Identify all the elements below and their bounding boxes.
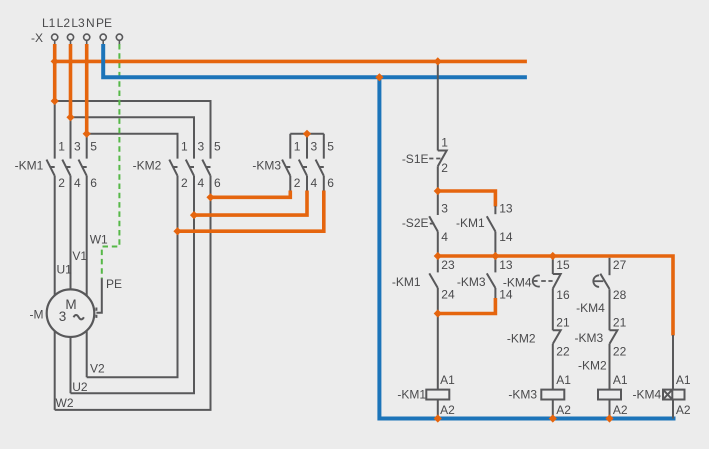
wire star link KM3:2 to W2 line (orange) bbox=[211, 191, 291, 198]
junction node C bbox=[434, 309, 442, 317]
timed contact KM4 27-28 NO delayed bbox=[593, 274, 609, 289]
svg-text:1: 1 bbox=[58, 139, 65, 153]
wire node B to KM3:13 bbox=[494, 257, 496, 272]
wire motor V2 to KM2:2 bbox=[87, 176, 178, 377]
svg-text:22: 22 bbox=[556, 345, 570, 359]
aux contact KM2 21-22 NC interlock bbox=[553, 330, 561, 344]
junction node B at KM4:15 bbox=[549, 252, 557, 260]
svg-text:4: 4 bbox=[198, 176, 205, 190]
wire PE green dashed run bbox=[102, 44, 120, 279]
aux contact KM3 21-22 NC interlock bbox=[610, 330, 618, 344]
junction V2 x star link bbox=[173, 227, 181, 235]
svg-text:14: 14 bbox=[499, 230, 513, 244]
wire KM4:16 to KM2:21 bbox=[552, 289, 554, 331]
svg-text:M: M bbox=[65, 297, 76, 312]
wire L2 feed to KM2:3 bbox=[71, 117, 195, 158]
pin labels S2 3 4 bbox=[441, 202, 448, 244]
terminal -X:PE bbox=[116, 34, 122, 45]
pin labels KM1 A1 A2 bbox=[440, 373, 455, 417]
coil KM4 timer with crossed cell bbox=[663, 390, 685, 400]
pin labels 23 24 bbox=[441, 258, 455, 302]
wire KM4:28 to KM3:21 bbox=[609, 289, 611, 330]
pin labels KM3 A1 A2 bbox=[556, 373, 571, 417]
junction blue bus x coil KM1 bbox=[434, 414, 442, 422]
junction node B at KM1:14 bbox=[491, 252, 499, 260]
pushbutton S1 NC stop contact bbox=[429, 151, 447, 167]
wire L3 feed to KM2:1 bbox=[87, 134, 178, 159]
pin labels 13 14 bbox=[499, 258, 513, 302]
wire KM3:2 lead bbox=[289, 176, 291, 191]
svg-text:2: 2 bbox=[441, 161, 448, 175]
wire S2 to node B bbox=[437, 232, 439, 258]
wire node B to KM4:27 bbox=[609, 258, 611, 275]
contactor KM1 main contacts poles 1-2 3-4 5-6 bbox=[47, 160, 87, 176]
svg-text:16: 16 bbox=[556, 288, 570, 302]
terminal -X:L3 bbox=[84, 34, 90, 45]
junction U2 x star link bbox=[190, 211, 198, 219]
terminal -X:L2 bbox=[67, 34, 73, 45]
wire control branch from L1 bus to S1 bbox=[437, 61, 439, 150]
junction node B at S2 bbox=[434, 252, 442, 260]
pushbutton S2 NO start contact bbox=[429, 216, 438, 231]
svg-text:5: 5 bbox=[214, 139, 221, 153]
svg-text:W1: W1 bbox=[90, 232, 108, 246]
wire node B to KM4:15 bbox=[552, 257, 554, 274]
pin labels 27 28 bbox=[613, 258, 627, 302]
svg-text:-KM4: -KM4 bbox=[503, 276, 532, 290]
junction W2 x star link bbox=[206, 193, 214, 201]
wire L3 to KM1:5 bbox=[86, 134, 88, 159]
svg-text:A2: A2 bbox=[440, 403, 455, 417]
wire KM4 branch lead bbox=[672, 335, 674, 390]
svg-text:4: 4 bbox=[441, 230, 448, 244]
pin labels KM4 A1 A2 bbox=[676, 373, 691, 417]
junction N bus x coil return bbox=[375, 73, 383, 81]
svg-text:-KM1: -KM1 bbox=[15, 158, 44, 172]
svg-text:-KM3: -KM3 bbox=[575, 331, 604, 345]
svg-text:2: 2 bbox=[58, 176, 65, 190]
wire KM1:6 to motor W1 and winding end V2 down bbox=[86, 176, 88, 377]
coil KM1 bbox=[426, 390, 449, 400]
motor PE terminal hook bbox=[96, 278, 101, 319]
svg-text:L1 L2 L3 N PE: L1 L2 L3 N PE bbox=[42, 16, 112, 30]
svg-text:21: 21 bbox=[556, 316, 570, 330]
wire L1 feed to KM2:5 bbox=[55, 101, 211, 159]
svg-text:-KM1: -KM1 bbox=[456, 216, 485, 230]
svg-text:U2: U2 bbox=[72, 380, 88, 394]
svg-text:A1: A1 bbox=[613, 373, 628, 387]
svg-text:28: 28 bbox=[613, 288, 627, 302]
wire S1 to S2 bbox=[437, 166, 439, 215]
wire coil KM1 A2 to blue bus bbox=[437, 400, 439, 419]
pin labels KM1 aux 13 14 bbox=[499, 202, 513, 244]
svg-text:6: 6 bbox=[327, 176, 334, 190]
svg-text:23: 23 bbox=[441, 258, 455, 272]
svg-text:1: 1 bbox=[181, 139, 188, 153]
wire star link KM3:6 to V2 line (orange) bbox=[178, 191, 324, 232]
aux contact KM1 13-14 latch bbox=[487, 206, 496, 232]
junction KM3 star bridge bbox=[303, 130, 311, 138]
svg-text:15: 15 bbox=[556, 258, 570, 272]
wire motor U2 to KM2:4 bbox=[71, 176, 195, 393]
svg-text:-X: -X bbox=[31, 31, 43, 45]
wire KM3:14 to node C (orange) bbox=[438, 298, 496, 314]
svg-text:A2: A2 bbox=[556, 403, 571, 417]
svg-text:3: 3 bbox=[441, 202, 448, 216]
pin labels KM3 1 3 5 2 4 6 bbox=[294, 139, 335, 190]
svg-text:A2: A2 bbox=[613, 403, 628, 417]
aux contact KM1 23-24 bbox=[429, 273, 438, 288]
svg-text:13: 13 bbox=[499, 202, 513, 216]
junction blue bus x coil KM2 bbox=[605, 414, 613, 422]
wire L2 phase drop (orange) bbox=[69, 44, 73, 117]
svg-text:13: 13 bbox=[499, 258, 513, 272]
wire coil KM4 A2 to blue bus bbox=[672, 400, 674, 419]
svg-text:21: 21 bbox=[613, 316, 627, 330]
svg-text:-KM1: -KM1 bbox=[397, 388, 426, 402]
svg-text:3: 3 bbox=[198, 139, 205, 153]
coil KM2 bbox=[598, 390, 621, 400]
wire KM3:22 to coil KM2 A1 bbox=[609, 344, 611, 390]
wire motor W2 to KM2:6 bbox=[55, 176, 211, 410]
svg-text:1: 1 bbox=[294, 139, 301, 153]
svg-text:2: 2 bbox=[294, 176, 301, 190]
svg-text:3: 3 bbox=[311, 139, 318, 153]
wire L3 phase drop (orange) bbox=[85, 44, 89, 134]
wire star link KM3:4 to U2 line (orange) bbox=[194, 191, 307, 216]
junction blue bus x coil KM3 bbox=[549, 414, 557, 422]
wire S1 output to KM1:13 (orange) bbox=[438, 191, 496, 207]
svg-text:U1: U1 bbox=[57, 263, 73, 277]
svg-text:5: 5 bbox=[90, 139, 97, 153]
contactor KM3 star-point bridge bbox=[290, 134, 324, 159]
svg-text:A1: A1 bbox=[676, 373, 691, 387]
svg-text:A1: A1 bbox=[556, 373, 571, 387]
svg-text:V2: V2 bbox=[90, 362, 105, 376]
terminal -X:L1 bbox=[52, 34, 58, 45]
contactor KM3 main contacts poles 1-2 3-4 5-6 bbox=[282, 160, 324, 176]
junction L2 x KM2 feed bbox=[66, 113, 74, 121]
junction S1 output bbox=[434, 187, 442, 195]
svg-text:5: 5 bbox=[327, 139, 334, 153]
svg-text:W2: W2 bbox=[56, 396, 74, 410]
wire KM3:6 lead bbox=[323, 176, 325, 191]
svg-text:V1: V1 bbox=[72, 249, 87, 263]
svg-text:A1: A1 bbox=[440, 373, 455, 387]
svg-text:-KM4: -KM4 bbox=[633, 388, 662, 402]
coil KM3 bbox=[541, 390, 564, 400]
wire KM3:14 stub bbox=[494, 288, 496, 299]
svg-text:-M: -M bbox=[30, 308, 44, 322]
svg-text:6: 6 bbox=[90, 176, 97, 190]
svg-text:-S1E: -S1E bbox=[402, 152, 429, 166]
motor M1 circle bbox=[47, 289, 95, 337]
pin labels KM2 A1 A2 bbox=[613, 373, 628, 417]
pin labels 21 22 bbox=[613, 316, 627, 359]
svg-text:-KM3: -KM3 bbox=[252, 158, 281, 172]
svg-text:1: 1 bbox=[441, 136, 448, 150]
terminal -X:N bbox=[100, 34, 106, 45]
svg-text:A2: A2 bbox=[676, 403, 691, 417]
wire KM1:2 to motor U1 and winding end W2 down bbox=[54, 176, 56, 410]
svg-text:PE: PE bbox=[106, 277, 122, 291]
junction bus x S1 branch bbox=[434, 57, 442, 65]
pin labels 21 22 bbox=[556, 316, 570, 359]
wire node B to KM1:23 bbox=[437, 257, 439, 272]
svg-text:3: 3 bbox=[74, 139, 81, 153]
svg-text:-KM1: -KM1 bbox=[392, 275, 421, 289]
wire coil KM3 A2 to blue bus bbox=[552, 400, 554, 419]
node B rail (orange) bbox=[438, 256, 673, 336]
aux contact KM3 13-14 bbox=[487, 273, 496, 288]
pin labels 15 16 bbox=[556, 258, 570, 302]
wire KM2:22 to coil KM3 A1 bbox=[552, 344, 554, 390]
contactor KM2 main contacts poles 1-2 3-4 5-6 bbox=[169, 160, 210, 176]
svg-text:4: 4 bbox=[74, 176, 81, 190]
wire L1 bus to control circuit (orange) bbox=[55, 60, 527, 64]
wire KM3:4 lead bbox=[306, 176, 308, 191]
svg-text:2: 2 bbox=[181, 176, 188, 190]
svg-text:22: 22 bbox=[613, 345, 627, 359]
wire KM1:14 to node B bbox=[494, 232, 496, 258]
timed contact KM4 15-16 NC delayed bbox=[533, 274, 561, 289]
pin labels KM1 1 3 5 2 4 6 bbox=[58, 139, 97, 190]
svg-text:14: 14 bbox=[499, 288, 513, 302]
wire KM1:4 to motor V1 and winding end U2 down bbox=[70, 176, 72, 393]
wire N drop and neutral bus (blue) bbox=[103, 44, 527, 77]
svg-text:27: 27 bbox=[613, 258, 627, 272]
wire coil KM2 A2 to blue bus bbox=[609, 400, 611, 419]
svg-text:-S2E: -S2E bbox=[402, 216, 429, 230]
svg-text:3: 3 bbox=[59, 309, 67, 324]
svg-text:6: 6 bbox=[214, 176, 221, 190]
wire L2 to KM1:3 bbox=[70, 117, 72, 158]
pin labels KM2 1 3 5 2 4 6 bbox=[181, 139, 221, 190]
svg-text:4: 4 bbox=[311, 176, 318, 190]
junction L1 x KM2 feed bbox=[51, 97, 59, 105]
svg-text:-KM3: -KM3 bbox=[508, 388, 537, 402]
junction L3 x KM2 feed bbox=[83, 130, 91, 138]
junction L1 x bus bbox=[51, 57, 59, 65]
wire neutral vertical to coil return bus (blue) bbox=[379, 77, 675, 418]
svg-text:-KM2: -KM2 bbox=[133, 158, 162, 172]
svg-text:-KM3: -KM3 bbox=[457, 275, 486, 289]
wire L1 phase drop (orange) bbox=[53, 44, 57, 101]
svg-text:-KM2: -KM2 bbox=[578, 359, 607, 373]
pin labels S1 1 2 bbox=[441, 136, 448, 175]
svg-text:24: 24 bbox=[441, 288, 455, 302]
wire L1 to KM1:1 bbox=[54, 101, 56, 159]
wire KM1:24 to node C to coil KM1 A1 bbox=[437, 288, 439, 390]
svg-text:-KM4: -KM4 bbox=[576, 301, 605, 315]
svg-text:-KM2: -KM2 bbox=[507, 331, 536, 345]
